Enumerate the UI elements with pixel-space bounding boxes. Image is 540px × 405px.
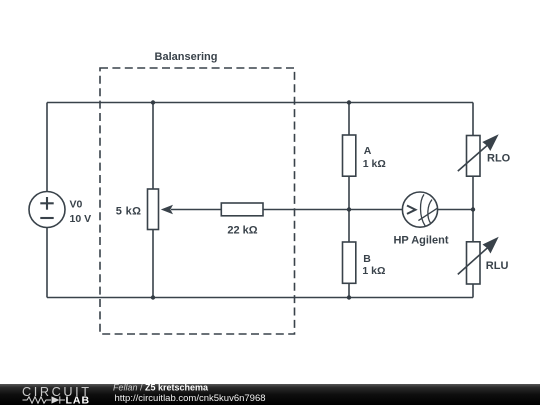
svg-text:Balansering: Balansering xyxy=(155,51,218,63)
svg-text:22 kΩ: 22 kΩ xyxy=(227,225,257,237)
svg-text:LAB: LAB xyxy=(66,395,91,405)
svg-text:10 V: 10 V xyxy=(70,213,92,225)
svg-text:RLU: RLU xyxy=(486,260,509,272)
svg-text:B: B xyxy=(363,253,371,265)
svg-text:Fellan / Z5 kretschema: Fellan / Z5 kretschema xyxy=(113,383,209,393)
svg-text:http://circuitlab.com/cnk5kuv6: http://circuitlab.com/cnk5kuv6n7968 xyxy=(115,393,266,404)
svg-text:HP Agilent: HP Agilent xyxy=(393,235,448,247)
svg-text:RLO: RLO xyxy=(487,153,511,165)
svg-text:1 kΩ: 1 kΩ xyxy=(363,158,386,170)
svg-text:1 kΩ: 1 kΩ xyxy=(362,265,385,277)
svg-text:A: A xyxy=(364,145,372,157)
svg-text:5 kΩ: 5 kΩ xyxy=(116,205,142,217)
svg-text:V0: V0 xyxy=(70,198,83,210)
